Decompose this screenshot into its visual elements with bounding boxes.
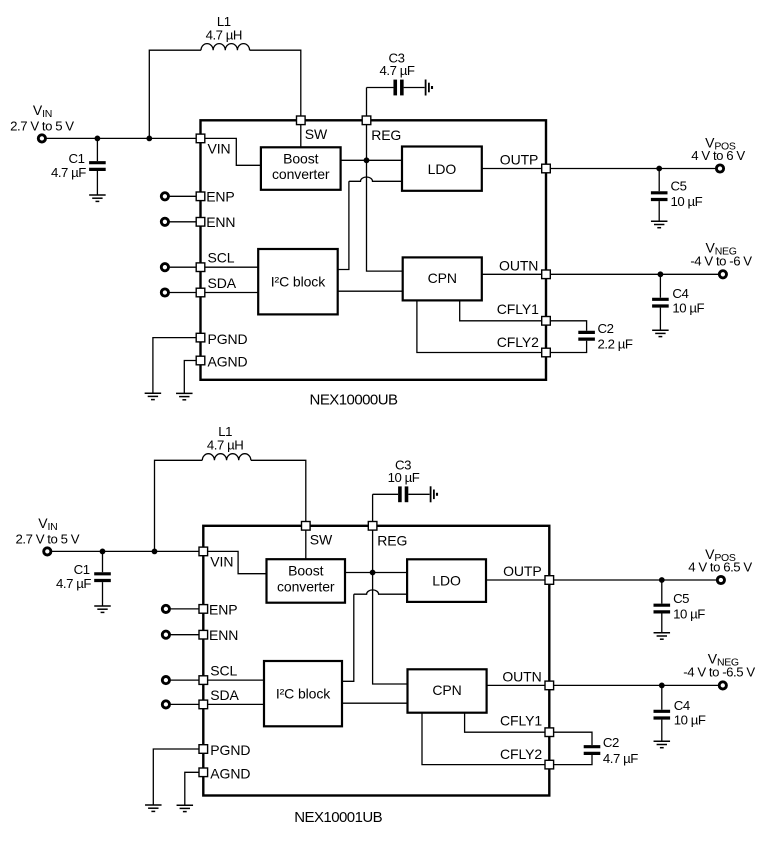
svg-text:Boost: Boost	[283, 150, 319, 166]
svg-text:2.2 µF: 2.2 µF	[598, 337, 633, 352]
svg-text:10 µF: 10 µF	[388, 470, 420, 485]
svg-text:C2: C2	[598, 321, 614, 336]
svg-text:C1: C1	[69, 151, 85, 166]
svg-text:I²C block: I²C block	[276, 685, 331, 701]
svg-text:10 µF: 10 µF	[673, 607, 705, 622]
svg-text:converter: converter	[277, 578, 335, 594]
svg-text:OUTP: OUTP	[503, 563, 542, 579]
svg-text:AGND: AGND	[210, 766, 250, 782]
svg-text:4.7 µH: 4.7 µH	[206, 27, 242, 42]
svg-text:4 V to 6 V: 4 V to 6 V	[691, 148, 745, 163]
svg-text:SDA: SDA	[208, 275, 237, 291]
svg-text:CFLY2: CFLY2	[497, 334, 539, 350]
svg-text:NEX10000UB: NEX10000UB	[310, 392, 398, 409]
svg-text:REG: REG	[377, 532, 407, 548]
svg-text:SCL: SCL	[210, 663, 237, 679]
svg-text:SDA: SDA	[210, 687, 239, 703]
svg-text:LDO: LDO	[428, 161, 457, 177]
svg-text:2.7 V to 5 V: 2.7 V to 5 V	[16, 531, 80, 546]
svg-text:AGND: AGND	[208, 354, 248, 370]
svg-text:C5: C5	[673, 591, 689, 606]
svg-text:NEX10001UB: NEX10001UB	[294, 809, 382, 826]
svg-text:4.7 µF: 4.7 µF	[380, 63, 415, 78]
svg-text:PGND: PGND	[210, 742, 250, 758]
svg-text:PGND: PGND	[208, 331, 248, 347]
svg-text:-4 V to -6.5 V: -4 V to -6.5 V	[683, 665, 755, 680]
svg-text:Boost: Boost	[288, 563, 324, 579]
svg-text:OUTP: OUTP	[500, 152, 539, 168]
svg-text:I²C block: I²C block	[271, 273, 326, 289]
svg-text:10 µF: 10 µF	[672, 301, 704, 316]
svg-text:-4 V to -6 V: -4 V to -6 V	[690, 254, 752, 269]
svg-text:LDO: LDO	[432, 573, 461, 589]
svg-text:C4: C4	[674, 698, 690, 713]
svg-text:SW: SW	[305, 126, 328, 142]
svg-text:CPN: CPN	[428, 270, 457, 286]
svg-text:2.7 V to 5 V: 2.7 V to 5 V	[10, 118, 74, 133]
svg-text:4 V to 6.5 V: 4 V to 6.5 V	[688, 559, 752, 574]
svg-text:10 µF: 10 µF	[671, 194, 703, 209]
svg-text:C4: C4	[672, 286, 688, 301]
svg-text:converter: converter	[272, 166, 330, 182]
svg-text:C2: C2	[603, 735, 619, 750]
svg-text:ENP: ENP	[209, 601, 238, 617]
svg-text:4.7 µF: 4.7 µF	[51, 165, 86, 180]
svg-text:SCL: SCL	[208, 250, 235, 266]
svg-text:ENP: ENP	[206, 189, 235, 205]
svg-text:REG: REG	[371, 127, 401, 143]
svg-text:10 µF: 10 µF	[674, 713, 706, 728]
svg-text:ENN: ENN	[209, 627, 238, 643]
svg-text:SW: SW	[310, 532, 333, 548]
svg-text:CFLY1: CFLY1	[497, 301, 539, 317]
svg-text:CFLY1: CFLY1	[500, 713, 542, 729]
svg-text:VIN: VIN	[210, 554, 233, 570]
svg-text:ENN: ENN	[206, 214, 235, 230]
svg-text:C5: C5	[671, 179, 687, 194]
svg-text:OUTN: OUTN	[499, 258, 538, 274]
svg-text:C1: C1	[74, 562, 90, 577]
svg-text:4.7 µF: 4.7 µF	[56, 576, 91, 591]
svg-text:OUTN: OUTN	[502, 669, 541, 685]
svg-text:4.7 µH: 4.7 µH	[207, 437, 243, 452]
svg-text:VIN: VIN	[208, 141, 231, 157]
svg-text:CPN: CPN	[432, 682, 461, 698]
svg-text:4.7 µF: 4.7 µF	[603, 751, 638, 766]
svg-text:CFLY2: CFLY2	[500, 746, 542, 762]
